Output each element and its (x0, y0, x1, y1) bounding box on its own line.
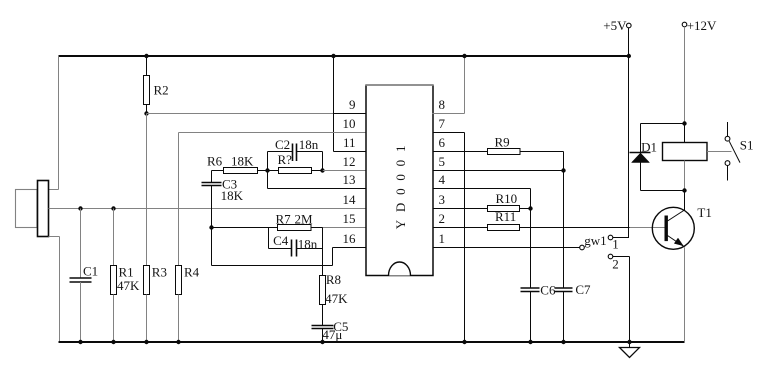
power +5V terminal (627, 23, 632, 237)
microphone MIC1 body (16, 181, 49, 237)
svg-text:D1: D1 (641, 139, 657, 154)
svg-text:R3: R3 (152, 264, 167, 279)
svg-text:R9: R9 (495, 135, 510, 150)
svg-text:14: 14 (343, 192, 357, 207)
node R4 ground (176, 340, 180, 344)
wire pin 12 net (323, 170, 367, 172)
svg-text:3: 3 (439, 192, 446, 207)
node ladder tap on rail (331, 54, 335, 58)
svg-text:18n: 18n (298, 237, 318, 252)
node R2 bottom junction (144, 111, 148, 115)
node pin5 R9 junction (561, 168, 565, 172)
resistor R4 (176, 266, 182, 343)
wire ground bottom rail (59, 341, 685, 343)
node R? right junction (320, 168, 324, 172)
svg-text:2: 2 (612, 257, 619, 272)
svg-text:R4: R4 (184, 264, 200, 279)
svg-text:R?: R? (278, 152, 293, 167)
wire left vertical to microphone (49, 56, 59, 190)
wire pin 5 net (433, 170, 564, 172)
ground symbol (620, 340, 640, 358)
wire pin 15 net (323, 227, 367, 229)
node C5 ground (320, 340, 324, 344)
svg-text:11: 11 (343, 135, 356, 150)
wire pin 1 net to gw1 (433, 247, 580, 249)
capacitor C6 (521, 288, 540, 342)
wire pin 4 net down to C6 (433, 189, 531, 289)
node C1 ground (78, 340, 82, 344)
wire relay to S1 (707, 151, 732, 153)
node C7 ground (561, 340, 565, 344)
svg-text:2: 2 (439, 211, 446, 226)
resistor R2 (144, 56, 150, 114)
svg-text:gw1: gw1 (584, 233, 606, 248)
svg-text:C2: C2 (275, 137, 290, 152)
wire pin 10 net to R4 (179, 133, 367, 266)
wire +5V drop to pin 11 (334, 56, 367, 152)
svg-text:C1: C1 (83, 264, 98, 279)
svg-text:6: 6 (439, 135, 446, 150)
resistor R3 (144, 266, 150, 343)
node pin7 ground (462, 340, 466, 344)
wire pin 7 net to ground (433, 133, 465, 343)
wire microphone bottom to ground rail (49, 237, 60, 343)
node pin3 R10 junction (528, 206, 532, 210)
svg-text:R7: R7 (276, 212, 292, 227)
power +12V terminal (682, 22, 687, 123)
node C6 ground (528, 340, 532, 344)
svg-text:13: 13 (343, 172, 356, 187)
node R3 ground (144, 340, 148, 344)
wire relay top (641, 124, 685, 143)
node R1 tap (111, 206, 115, 210)
node gw1 pole terminal (580, 245, 585, 250)
svg-text:12: 12 (343, 154, 356, 169)
relay K1 coil box (663, 143, 708, 161)
svg-text:10: 10 (343, 116, 356, 131)
node R6 right junction (265, 168, 269, 172)
node C3 bottom junction (209, 225, 213, 229)
wire pin 9 net (147, 113, 367, 115)
capacitor C4 (269, 228, 323, 257)
capacitor C3 (202, 171, 222, 228)
capacitor C2 (268, 144, 323, 171)
svg-text:YD0001: YD0001 (393, 138, 408, 230)
resistor R? (268, 168, 323, 174)
svg-text:+12V: +12V (687, 18, 717, 33)
svg-text:4: 4 (439, 172, 446, 187)
svg-text:16: 16 (343, 231, 357, 246)
svg-text:R2: R2 (154, 83, 169, 98)
wire pin 8 net from +5V rail (433, 56, 465, 114)
svg-text:T1: T1 (697, 205, 711, 220)
resistor R8 (320, 228, 326, 326)
wire mic signal line to pin 14 (49, 208, 367, 210)
resistor R9 (433, 149, 564, 155)
svg-text:S1: S1 (740, 138, 754, 153)
svg-text:C4: C4 (273, 233, 289, 248)
transistor T1 (652, 191, 694, 343)
node R2 top on rail (144, 54, 148, 58)
switch S1 (725, 122, 740, 181)
svg-text:7: 7 (439, 116, 446, 131)
svg-text:C7: C7 (575, 282, 591, 297)
svg-text:18K: 18K (231, 154, 254, 169)
svg-text:R11: R11 (495, 209, 516, 224)
capacitor C7 (555, 288, 573, 342)
op-amp U1 IC YD0001 (365, 85, 433, 276)
svg-text:1: 1 (612, 237, 619, 252)
wire pin 13 net (268, 171, 367, 189)
resistor R11 (433, 225, 520, 231)
node +5V rail end (627, 54, 631, 58)
svg-text:R8: R8 (326, 272, 341, 287)
wire top +5V rail (59, 55, 630, 57)
svg-text:5: 5 (439, 154, 446, 169)
svg-text:R6: R6 (207, 154, 223, 169)
node C1 tap (78, 206, 82, 210)
node gw1 contact 1 (608, 235, 629, 240)
svg-text:18K: 18K (221, 188, 244, 203)
svg-text:R10: R10 (496, 191, 518, 206)
node gw1 contact 2 (608, 254, 629, 342)
diode D1 (630, 124, 651, 191)
svg-text:47K: 47K (117, 278, 140, 293)
node pin8 drop on rail (462, 54, 466, 58)
svg-text:47K: 47K (325, 291, 348, 306)
node collector junction (682, 188, 686, 192)
svg-text:2M: 2M (295, 212, 314, 227)
svg-text:15: 15 (343, 211, 356, 226)
capacitor C1 (70, 209, 92, 343)
svg-text:8: 8 (439, 97, 446, 112)
node relay top junction (682, 121, 686, 125)
svg-text:+5V: +5V (603, 18, 627, 33)
svg-text:C6: C6 (540, 283, 556, 298)
resistor R7 (212, 225, 323, 231)
svg-text:18n: 18n (299, 137, 319, 152)
svg-text:1: 1 (439, 231, 446, 246)
wire under-route to pin 16 (212, 228, 367, 266)
resistor R6 (212, 168, 268, 174)
wire R9 down through pin5 to C7 (563, 152, 565, 289)
resistor R10 (433, 206, 531, 212)
svg-text:9: 9 (349, 97, 356, 112)
wire R11 to transistor base (520, 227, 665, 229)
capacitor C5 (312, 326, 334, 343)
node R1 ground (111, 340, 115, 344)
svg-text:47μ: 47μ (322, 327, 342, 342)
wire relay bottom (641, 161, 685, 191)
resistor R1 (111, 209, 117, 343)
wire R2 bottom down to R3 (146, 114, 148, 266)
